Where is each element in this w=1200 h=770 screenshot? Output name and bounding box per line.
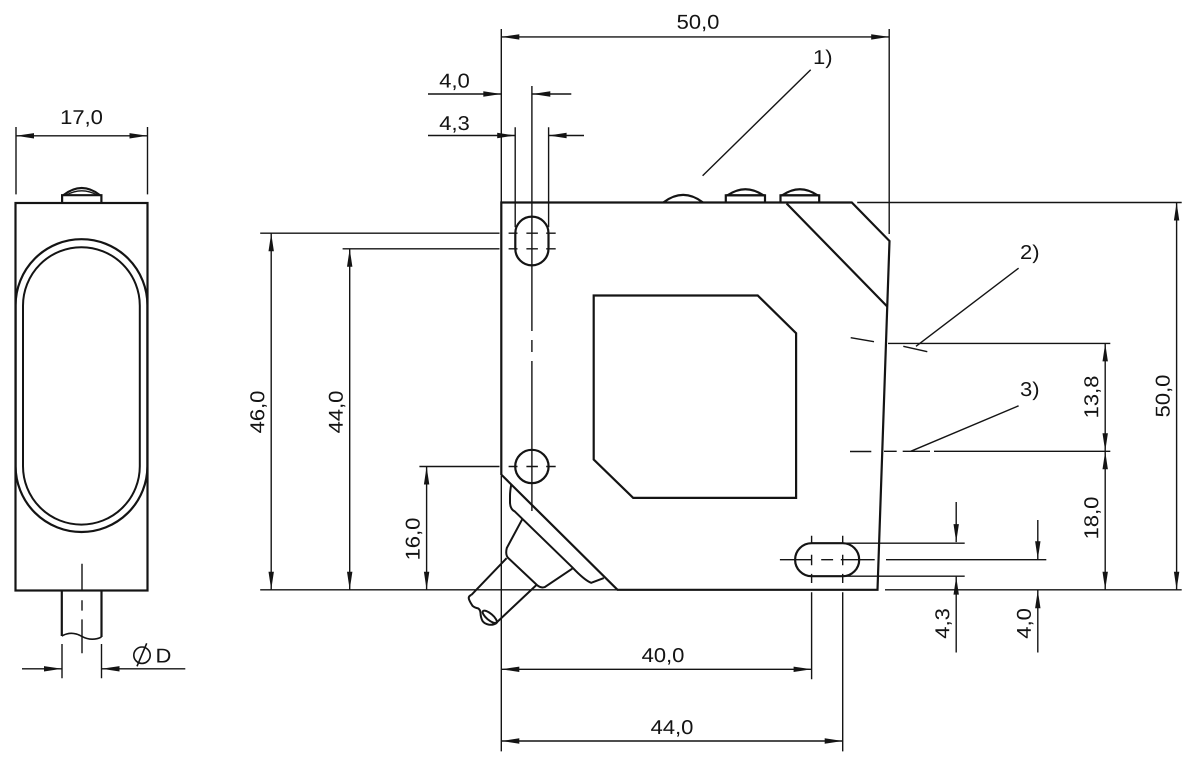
connector cable stub left edge: [472, 558, 507, 595]
label 1): [815, 50, 832, 69]
lens window rounded square: [594, 296, 796, 498]
label diameter D: [157, 649, 170, 663]
label 4,3 bottom: [935, 609, 952, 638]
dim 4,3 top extension lines: [515, 127, 548, 227]
side view body: [16, 203, 148, 591]
dim 46,0 dimension line: [270, 233, 272, 590]
bottom dims left extension line: [500, 476, 502, 751]
connector cable stub right edge: [498, 585, 537, 622]
label 44,0 bottom: [651, 720, 692, 737]
label 4,0 bottom: [1017, 609, 1034, 638]
dim 16,0 extension line: [419, 466, 499, 468]
mounting slot top-left obround: [515, 217, 548, 266]
diameter symbol: [134, 647, 150, 663]
side view sensing face outer stadium: [16, 239, 148, 532]
button 2 base: [781, 195, 820, 202]
label 13,8: [1084, 377, 1101, 417]
angled face inner edge: [787, 204, 888, 307]
connector cable boot tip: [469, 595, 498, 625]
label 44,0: [329, 392, 346, 433]
button 2 dome: [782, 189, 817, 195]
dim 4,3 bottom arrow lines: [955, 502, 957, 542]
lower circle center marks: [509, 466, 556, 468]
dim 50,0 top dimension line: [501, 36, 889, 38]
side view cable centerline: [81, 564, 83, 654]
label 50,0 top: [678, 15, 719, 32]
main body outline: [501, 203, 889, 590]
label 3): [1021, 382, 1038, 401]
connector neck taper: [506, 519, 572, 587]
dim 4,3 top arrow lines: [428, 135, 515, 137]
side view cable left edge: [61, 591, 63, 637]
callout 3 leader line: [911, 406, 1019, 452]
mounting hole lower circle: [515, 450, 548, 483]
dim 50,0 top extension lines: [501, 29, 889, 234]
dim 4,0 top arrow lines: [428, 93, 501, 95]
label 40,0: [642, 648, 683, 665]
callout 1 leader line: [703, 70, 811, 176]
label 18,0: [1084, 498, 1101, 538]
button 1 top line: [726, 194, 765, 196]
dim 4,0 bottom arrow lines: [1037, 520, 1039, 559]
label 4,3 top: [440, 116, 469, 133]
slot bottom edge extension right: [843, 575, 965, 577]
bottom-right slot horizontal centerline: [780, 559, 1046, 561]
label 17,0: [62, 110, 102, 127]
label 46,0: [250, 392, 267, 433]
axis 2 tick mark: [903, 346, 927, 351]
label 50,0 right: [1156, 376, 1173, 417]
dim 16,0 dimension line: [426, 467, 428, 590]
dim 50,0 right dimension line: [1176, 203, 1178, 590]
button 1 dome: [728, 189, 764, 195]
dim 18,0 dimension line: [1104, 451, 1106, 590]
side view top button base: [62, 195, 101, 203]
bottom-right slot center marks and extensions: [811, 536, 813, 680]
button 2 top line: [781, 194, 820, 196]
dim 44,0 dimension line: [349, 249, 351, 590]
connector flange: [510, 484, 604, 583]
bottom edge extension line right: [885, 589, 1182, 591]
side view cable right edge: [100, 591, 102, 638]
top edge extension line right: [857, 202, 1181, 204]
dim diameter D extension ticks: [62, 644, 102, 678]
button 1 base: [726, 195, 765, 202]
side view sensing face inner stadium: [23, 247, 140, 524]
dim 44,0 bottom dimension line: [501, 740, 842, 742]
dim 13,8 dimension line: [1104, 343, 1106, 451]
bottom edge extension line left: [260, 589, 618, 591]
dim 40,0 dimension line: [501, 668, 811, 670]
bottom-right slot obround: [795, 543, 859, 576]
label 2): [1021, 245, 1038, 264]
axis 2 extension line: [888, 342, 1110, 344]
connector cable end ellipse: [481, 609, 499, 625]
dim diameter D arrow lines: [22, 668, 62, 670]
optical axis 2 dashed line: [851, 338, 874, 342]
axis 3 extension line: [934, 450, 1110, 452]
side view top button dome inner arc: [66, 191, 98, 195]
top slot center marks upper: [509, 232, 556, 234]
dim 17,0 extension lines: [16, 127, 148, 194]
dim 44,0 extension line: [343, 248, 500, 250]
side view top button dome outer arc: [63, 188, 100, 195]
vertical centerline through mounting holes: [531, 86, 533, 511]
label 4,0 top: [440, 74, 469, 91]
callout 2 leader line: [916, 268, 1019, 346]
dim 17,0 dimension line: [16, 135, 148, 137]
indicator LED dome: [663, 195, 703, 203]
axis 3 dashed line: [850, 450, 930, 452]
label 16,0: [406, 519, 423, 559]
dim 46,0 extension line: [260, 232, 499, 234]
top slot center marks lower: [509, 248, 556, 250]
slot top edge extension right: [843, 542, 965, 544]
side view cable break wavy line: [62, 633, 102, 639]
